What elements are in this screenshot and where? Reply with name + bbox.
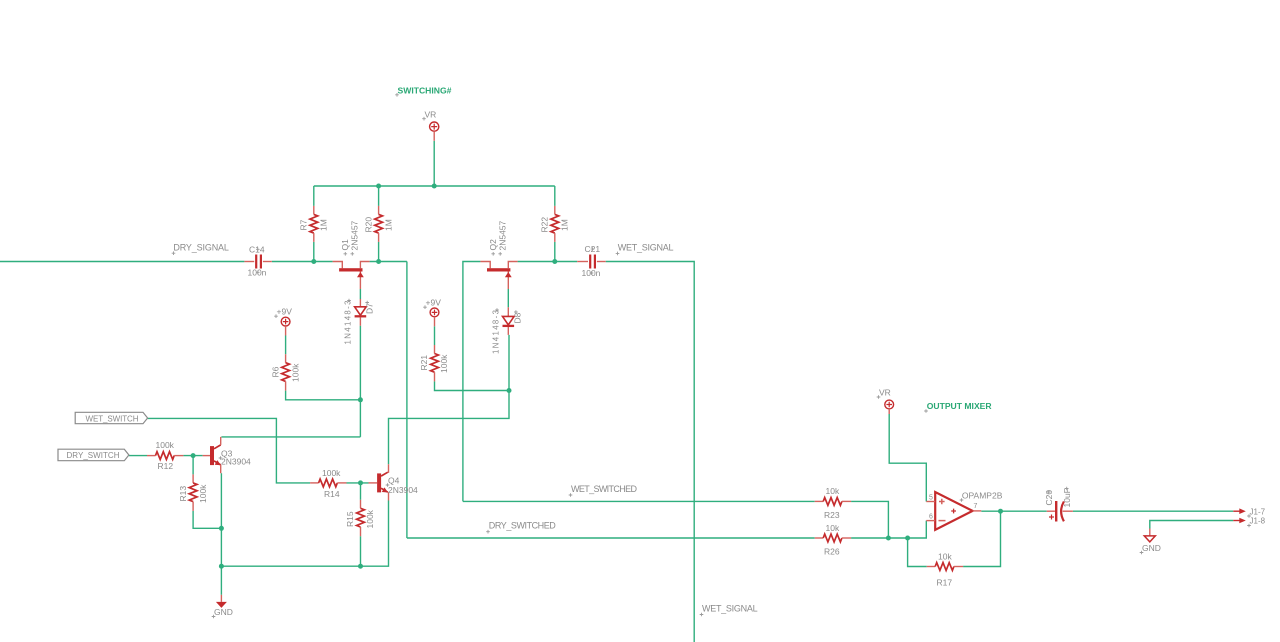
resistor R22: [540, 206, 570, 242]
svg-text:R20: R20: [363, 217, 373, 233]
junction node R23/R26: [886, 536, 891, 541]
junction node Q2 drain/R22: [552, 259, 557, 264]
wire VR right feed to opamp plus input: [889, 414, 926, 502]
wire inverting node run: [851, 521, 926, 538]
svg-text:R15: R15: [345, 511, 355, 527]
wire R15 stubs: [360, 483, 362, 500]
svg-text:1N4148-3: 1N4148-3: [492, 310, 501, 354]
svg-text:WET_SIGNAL: WET_SIGNAL: [618, 242, 674, 252]
svg-text:D7: D7: [365, 303, 375, 314]
wire R21 bottom to D8 junction: [435, 381, 510, 390]
svg-text:DRY_SIGNAL: DRY_SIGNAL: [173, 242, 229, 252]
wire R14 to Q4 base: [347, 482, 369, 484]
svg-text:7: 7: [974, 503, 978, 510]
svg-text:10k: 10k: [826, 523, 840, 533]
svg-text:OUTPUT MIXER: OUTPUT MIXER: [927, 401, 993, 411]
svg-text:2N3904: 2N3904: [221, 457, 251, 467]
svg-text:WET_SWITCHED: WET_SWITCHED: [571, 484, 638, 494]
svg-text:1M: 1M: [383, 219, 393, 231]
svg-text:R17: R17: [937, 577, 953, 587]
wire R20 stubs: [378, 186, 380, 206]
svg-text:2N3904: 2N3904: [388, 485, 418, 495]
svg-text:OPAMP2B: OPAMP2B: [962, 490, 1003, 500]
svg-text:100k: 100k: [439, 354, 449, 373]
svg-text:1M: 1M: [319, 219, 329, 231]
resistor R7: [299, 206, 329, 242]
svg-text:R14: R14: [324, 489, 340, 499]
svg-text:SWITCHING#: SWITCHING#: [398, 85, 452, 95]
junction node R17/inverting: [905, 536, 910, 541]
wire WET_SWITCHED horizontal: [463, 500, 815, 502]
resistor R12: [147, 440, 183, 471]
svg-text:VR: VR: [425, 110, 437, 120]
diode D8 1N4148: [492, 307, 523, 354]
wire GND stub to J1-8: [1150, 521, 1234, 529]
junction node D7/R6: [358, 397, 363, 402]
global label DRY_SWITCH flag: [58, 449, 129, 461]
op-amp U1 OPAMP2B: [926, 490, 1002, 530]
svg-text:VR: VR: [879, 388, 891, 398]
wire R17 right to output: [963, 511, 1000, 566]
svg-text:R6: R6: [270, 366, 280, 377]
junction node R14/R15: [358, 480, 363, 485]
svg-text:WET_SWITCH: WET_SWITCH: [86, 414, 139, 423]
junction node Q1 drain/R20: [376, 259, 381, 264]
global label WET_SWITCH flag: [75, 412, 147, 423]
wire R12 to Q3 base: [183, 455, 202, 457]
wire DRY_SWITCH to R12: [129, 455, 147, 457]
resistor R13: [178, 474, 208, 511]
wire R22 stubs: [554, 186, 556, 206]
wire Q2 source to D8: [507, 289, 509, 307]
capacitor C20 polarized: [1044, 488, 1073, 521]
svg-text:Q1: Q1: [340, 239, 350, 251]
resistor R23: [815, 486, 851, 520]
ground symbol left GND: [214, 595, 233, 617]
wire R17 left riser: [908, 538, 927, 567]
resistor R21: [419, 345, 449, 381]
wire vertical DRY_SWITCHED riser: [406, 262, 408, 539]
junction node ground rail left: [219, 564, 224, 569]
svg-text:10uF: 10uF: [1062, 488, 1072, 507]
svg-text:100k: 100k: [290, 363, 300, 382]
svg-text:100k: 100k: [198, 484, 208, 503]
text anchor marks: [172, 93, 1251, 618]
svg-text:100k: 100k: [156, 440, 175, 450]
junction node R15/ground rail: [358, 564, 363, 569]
resistor R20: [363, 206, 393, 242]
wire main input line DRY_SIGNAL: [0, 261, 244, 263]
wire Q3 collector run: [221, 436, 360, 438]
resistor R26: [815, 523, 851, 557]
ground symbol right GND: [1142, 529, 1161, 554]
wire junction to R13: [192, 456, 194, 475]
wire Q1 drain to corner down: [370, 261, 407, 263]
wire Q2 drain to C21: [518, 261, 578, 263]
power symbol VR top: [425, 110, 439, 141]
svg-text:R22: R22: [540, 217, 550, 233]
wire R7 stubs: [313, 186, 315, 206]
svg-text:+9V: +9V: [277, 307, 293, 317]
svg-text:WET_SIGNAL: WET_SIGNAL: [702, 603, 758, 613]
wire WET_SWITCH to R14: [148, 418, 311, 483]
wire R13 bottom to emitter line: [193, 511, 221, 528]
capacitor C14: [244, 245, 271, 278]
transistor Q1 2N5457: [333, 220, 370, 289]
resistor R14: [310, 468, 346, 499]
resistor R15: [345, 500, 375, 536]
wire +9V to R21: [434, 326, 436, 345]
junction node C14/R7: [311, 259, 316, 264]
svg-text:+9V: +9V: [426, 298, 442, 308]
svg-text:2N5457: 2N5457: [350, 220, 360, 250]
wire C14 to Q1 gate: [272, 261, 333, 263]
wire opamp output to C20: [981, 510, 1046, 512]
wire R6 bottom to D7 junction: [286, 391, 361, 400]
svg-text:DRY_SWITCH: DRY_SWITCH: [67, 451, 120, 460]
svg-text:1N4148-3: 1N4148-3: [344, 301, 353, 345]
svg-text:DRY_SWITCHED: DRY_SWITCHED: [489, 521, 557, 531]
hierarchical pin J1-7: [1233, 507, 1265, 516]
wire DRY_SWITCHED horizontal: [407, 537, 815, 539]
svg-text:R26: R26: [824, 547, 840, 557]
svg-text:10k: 10k: [938, 551, 952, 561]
hierarchical pin J1-8: [1233, 517, 1265, 526]
resistor R6: [270, 354, 300, 390]
svg-text:GND: GND: [1142, 543, 1161, 553]
capacitor C21: [577, 244, 606, 278]
wire WET_SWITCHED riser to Q2 gate: [463, 262, 481, 502]
wire C21 to WET_SIGNAL vertical: [606, 262, 695, 642]
svg-text:R21: R21: [419, 355, 429, 371]
wire R23 to inverting node: [851, 501, 888, 538]
wire D7 cathode down through junction: [359, 326, 361, 437]
svg-text:5: 5: [929, 495, 933, 502]
wire C20 to J1-7: [1073, 510, 1233, 512]
svg-text:R12: R12: [158, 461, 174, 471]
wire ground rail: [221, 501, 388, 567]
power symbol +9V left: [277, 307, 293, 336]
svg-text:100k: 100k: [365, 509, 375, 528]
svg-text:Q2: Q2: [488, 239, 498, 251]
svg-text:J1-7: J1-7: [1250, 507, 1266, 516]
svg-text:10k: 10k: [826, 486, 840, 496]
diode D7 1N4148: [344, 299, 375, 345]
wire +9V to R6: [285, 336, 287, 355]
transistor Q2 2N5457: [480, 220, 517, 289]
svg-text:100k: 100k: [322, 468, 341, 478]
transistor Q4 2N3904: [369, 464, 419, 500]
wire Q3 emitter down to GND: [220, 473, 222, 595]
junction node R12/R13: [191, 453, 196, 458]
svg-text:GND: GND: [214, 607, 233, 617]
svg-text:R13: R13: [178, 486, 188, 502]
transistor Q3 2N3904: [203, 437, 251, 473]
junction node R13/emitter: [219, 526, 224, 531]
svg-text:D8: D8: [512, 312, 522, 323]
svg-text:Q4: Q4: [388, 476, 400, 486]
junction node opamp output: [998, 509, 1003, 514]
wire top bus VR: [314, 185, 555, 187]
power symbol VR right: [879, 388, 894, 415]
svg-text:6: 6: [929, 514, 933, 521]
wire Q4 collector up to D8 line: [389, 335, 510, 464]
junction node bus VR: [432, 184, 437, 189]
power symbol +9V right: [426, 298, 442, 327]
svg-text:J1-8: J1-8: [1250, 517, 1266, 526]
svg-text:R23: R23: [824, 510, 840, 520]
wire VR power feed: [433, 141, 435, 186]
junction node D8/R21: [507, 388, 512, 393]
svg-text:1M: 1M: [560, 219, 570, 231]
svg-text:2N5457: 2N5457: [497, 220, 507, 250]
svg-text:R7: R7: [299, 219, 309, 230]
resistor R17: [927, 551, 963, 587]
wire Q1 source to D7: [359, 289, 361, 299]
junction node bus R20: [376, 184, 381, 189]
